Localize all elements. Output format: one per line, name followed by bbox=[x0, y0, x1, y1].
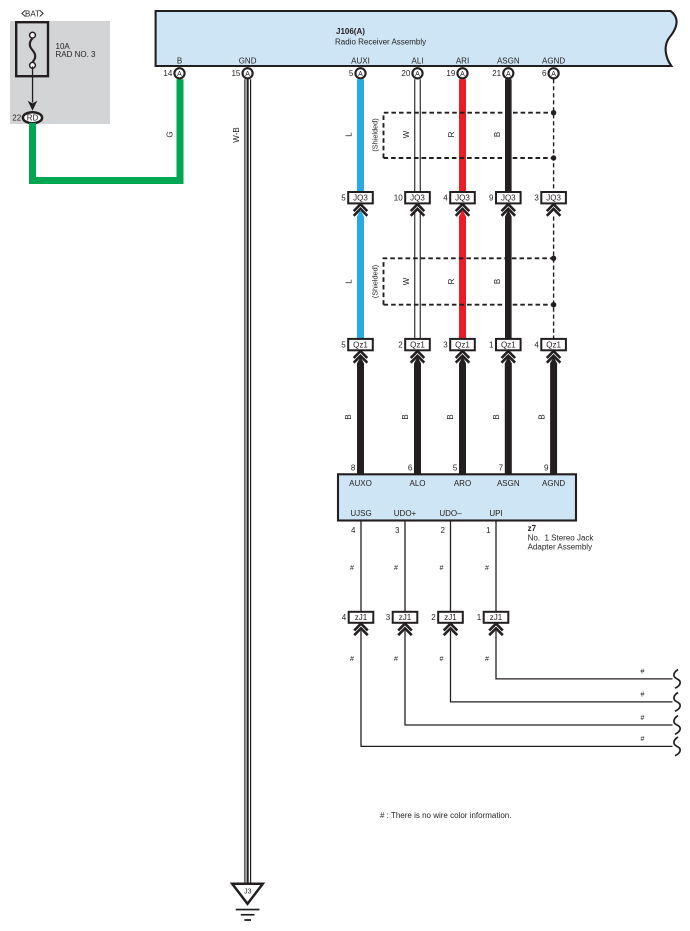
wire from zJ1 pin 4 turning right bbox=[361, 631, 673, 747]
svg-text:ASGN: ASGN bbox=[497, 479, 520, 488]
wire color labels L W R B (upper) bbox=[345, 130, 502, 138]
pin 21 (A) of J106(A), net ASGN bbox=[492, 68, 513, 78]
svg-text:2: 2 bbox=[398, 341, 403, 350]
chevron arrows below Qz1 pin 2 bbox=[411, 351, 425, 363]
svg-text:J3: J3 bbox=[244, 889, 252, 896]
svg-text:AUXO: AUXO bbox=[349, 479, 372, 488]
pin 20 (A) of J106(A), net ALI bbox=[401, 68, 422, 78]
pin 14 (A) of J106(A), net B bbox=[163, 68, 184, 78]
svg-text:#: # bbox=[440, 565, 444, 572]
svg-text:Qz1: Qz1 bbox=[546, 341, 561, 350]
svg-text:R: R bbox=[447, 278, 456, 284]
svg-text:B: B bbox=[492, 414, 501, 419]
chevron arrows below Qz1 pin 5 bbox=[354, 351, 368, 363]
svg-text:#: # bbox=[641, 692, 645, 699]
svg-text:RD: RD bbox=[27, 114, 39, 123]
svg-text:UDO–: UDO– bbox=[439, 509, 462, 518]
svg-text:1: 1 bbox=[489, 341, 494, 350]
svg-text:L: L bbox=[345, 279, 354, 284]
wire color labels L W R B (lower) bbox=[345, 277, 502, 285]
svg-text:JQ3: JQ3 bbox=[353, 194, 368, 203]
connector JQ3 pin 10 bbox=[394, 192, 430, 203]
svg-text:B: B bbox=[446, 414, 455, 419]
wire from fuse to connector 22 bbox=[32, 67, 33, 103]
svg-text:5: 5 bbox=[453, 464, 458, 473]
chevron arrows below zJ1 pin 3 bbox=[398, 624, 412, 636]
svg-text:UJSG: UJSG bbox=[350, 509, 371, 518]
svg-text:Adapter Assembly: Adapter Assembly bbox=[528, 543, 592, 552]
break squiggle at end of run y=725.0 bbox=[674, 716, 680, 735]
svg-text:5: 5 bbox=[349, 69, 354, 78]
svg-text:#: # bbox=[440, 656, 444, 663]
designation z7 No. 1 Stereo Jack Adapter Assembly bbox=[528, 524, 595, 552]
connector zJ1 pin 1 bbox=[477, 612, 509, 623]
chevron arrows below Qz1 pin 3 bbox=[456, 351, 470, 363]
chevron arrows below zJ1 pin 4 bbox=[354, 624, 368, 636]
chevron arrows below zJ1 pin 2 bbox=[444, 624, 458, 636]
connector Qz1 pin 5 bbox=[341, 339, 373, 350]
shielded group 2 dashed outline bbox=[384, 258, 554, 304]
title J106(A) bbox=[335, 27, 426, 46]
wire R (red) middle segment bbox=[459, 210, 466, 339]
svg-text:4: 4 bbox=[443, 194, 448, 203]
svg-text:9: 9 bbox=[489, 194, 494, 203]
svg-text:#: # bbox=[485, 565, 489, 572]
wire B (black) from Qz1 to z7 pin 7 bbox=[505, 357, 512, 476]
arrowhead down bbox=[28, 101, 38, 111]
svg-text:L: L bbox=[345, 132, 354, 137]
svg-text:5: 5 bbox=[341, 341, 346, 350]
svg-text:A: A bbox=[460, 71, 465, 78]
svg-text:15: 15 bbox=[231, 69, 240, 78]
svg-text:14: 14 bbox=[163, 69, 172, 78]
svg-text:4: 4 bbox=[342, 613, 347, 622]
svg-text:UPI: UPI bbox=[489, 509, 502, 518]
svg-text:#: # bbox=[641, 669, 645, 676]
battery label (BAT) bbox=[22, 9, 43, 18]
wire G (green) from connector 22 to pin 14 bbox=[33, 79, 181, 180]
connector Qz1 pin 1 bbox=[489, 339, 521, 350]
svg-text:#: # bbox=[350, 656, 354, 663]
svg-text:zJ1: zJ1 bbox=[444, 613, 457, 622]
svg-text:AGND: AGND bbox=[542, 479, 565, 488]
svg-text:#: # bbox=[641, 715, 645, 722]
wire L (AUXI, light blue) upper segment bbox=[357, 79, 364, 192]
svg-text:B: B bbox=[493, 132, 502, 137]
svg-text:Radio Receiver Assembly: Radio Receiver Assembly bbox=[335, 38, 426, 47]
svg-text:J106(A): J106(A) bbox=[336, 27, 365, 36]
svg-text:Qz1: Qz1 bbox=[455, 341, 470, 350]
svg-text:A: A bbox=[551, 71, 556, 78]
svg-text:6: 6 bbox=[542, 69, 547, 78]
svg-text:#: # bbox=[485, 656, 489, 663]
svg-text:8: 8 bbox=[351, 464, 356, 473]
svg-text:3: 3 bbox=[534, 194, 539, 203]
wire B (black) from Qz1 to z7 pin 8 bbox=[357, 357, 364, 476]
chevron arrows below JQ3 pin 5 bbox=[354, 204, 368, 216]
fuse value label 10A RAD NO. 3 bbox=[56, 42, 97, 59]
svg-text:(Shielded): (Shielded) bbox=[371, 118, 380, 151]
svg-text:B: B bbox=[537, 414, 546, 419]
svg-text:zJ1: zJ1 bbox=[355, 613, 368, 622]
svg-text:A: A bbox=[358, 71, 363, 78]
svg-text:JQ3: JQ3 bbox=[455, 194, 470, 203]
svg-text:21: 21 bbox=[492, 69, 501, 78]
svg-text:RAD NO. 3: RAD NO. 3 bbox=[56, 50, 97, 59]
svg-text:UDO+: UDO+ bbox=[394, 509, 417, 518]
chevron arrows below JQ3 pin 9 bbox=[502, 204, 516, 216]
svg-text:GND: GND bbox=[239, 57, 257, 66]
svg-text:ARI: ARI bbox=[456, 57, 469, 66]
svg-text:B: B bbox=[401, 414, 410, 419]
svg-text:#: # bbox=[350, 565, 354, 572]
connector Qz1 pin 2 bbox=[398, 339, 430, 350]
J106(A) Radio Receiver Assembly box bbox=[156, 11, 677, 66]
fuse 10A RAD NO. 3 bbox=[16, 22, 48, 76]
connector zJ1 pin 2 bbox=[431, 612, 463, 623]
svg-text:ALO: ALO bbox=[409, 479, 425, 488]
connector JQ3 pin 5 bbox=[341, 192, 373, 203]
connector Qz1 pin 3 bbox=[443, 339, 475, 350]
shielded group 1 dashed outline bbox=[384, 113, 554, 158]
svg-text:3: 3 bbox=[443, 341, 448, 350]
wire (no color info) from z7 pin 2 to zJ1 bbox=[450, 521, 451, 612]
junction dot shield1 bottom bbox=[551, 155, 556, 160]
connector 22 RD bbox=[12, 112, 42, 123]
svg-text:3: 3 bbox=[386, 613, 391, 622]
svg-text:B: B bbox=[493, 279, 502, 284]
svg-text:6: 6 bbox=[408, 464, 413, 473]
svg-text:G: G bbox=[165, 131, 174, 137]
break squiggle at end of run y=746.4 bbox=[674, 737, 680, 756]
svg-text:BAT: BAT bbox=[25, 9, 40, 18]
connector JQ3 pin 9 bbox=[489, 192, 521, 203]
junction dot shield2 top bbox=[551, 256, 556, 261]
wire L (light blue) middle segment bbox=[357, 210, 364, 339]
ground symbol J3 bbox=[232, 884, 263, 904]
wire (no color info) from z7 pin 4 to zJ1 bbox=[360, 521, 361, 612]
chevron arrows below zJ1 pin 1 bbox=[489, 624, 503, 636]
svg-text:JQ3: JQ3 bbox=[501, 194, 516, 203]
svg-text:Qz1: Qz1 bbox=[501, 341, 516, 350]
svg-text:W: W bbox=[402, 130, 411, 138]
pin 6 (A) of J106(A), net AGND bbox=[542, 68, 559, 78]
chevron arrows below JQ3 pin 4 bbox=[456, 204, 470, 216]
svg-text:B: B bbox=[177, 57, 182, 66]
svg-text:AGND: AGND bbox=[542, 57, 565, 66]
svg-text:ARO: ARO bbox=[454, 479, 471, 488]
wire W middle segment bbox=[414, 211, 421, 339]
wire W-B (GND) triple line from pin 15 to ground J3 bbox=[244, 79, 251, 883]
connector zJ1 pin 3 bbox=[386, 612, 418, 623]
wire AGND dashed upper segment bbox=[553, 79, 555, 192]
svg-text:z7: z7 bbox=[528, 524, 537, 533]
svg-text:zJ1: zJ1 bbox=[399, 613, 412, 622]
svg-text:10: 10 bbox=[394, 194, 403, 203]
svg-text:1: 1 bbox=[486, 526, 491, 535]
wire B (black) from Qz1 to z7 pin 6 bbox=[414, 357, 421, 476]
junction dot shield2 bottom bbox=[551, 302, 556, 307]
svg-text:A: A bbox=[177, 71, 182, 78]
svg-text:#: # bbox=[394, 656, 398, 663]
connector JQ3 pin 4 bbox=[443, 192, 475, 203]
wire from zJ1 pin 3 turning right bbox=[405, 631, 673, 725]
chevron arrows below Qz1 pin 1 bbox=[502, 351, 516, 363]
wire (no color info) from z7 pin 1 to zJ1 bbox=[495, 521, 496, 612]
z7 No.1 Stereo Jack Adapter Assembly box bbox=[338, 474, 576, 520]
break squiggle at end of run y=678.9 bbox=[674, 670, 680, 689]
wire AGND dashed middle segment bbox=[553, 217, 555, 339]
svg-text:AUXI: AUXI bbox=[351, 57, 370, 66]
pin 5 (A) of J106(A), net AUXI bbox=[349, 68, 366, 78]
svg-text:ALI: ALI bbox=[411, 57, 423, 66]
svg-text:4: 4 bbox=[351, 526, 356, 535]
svg-text:# : There is no wire color inf: # : There is no wire color information. bbox=[380, 811, 511, 820]
break squiggle at end of run y=701.9 bbox=[674, 693, 680, 712]
svg-text:20: 20 bbox=[401, 69, 410, 78]
svg-text:9: 9 bbox=[544, 464, 549, 473]
svg-text:No. 1 Stereo Jack: No. 1 Stereo Jack bbox=[528, 534, 595, 543]
svg-text:W-B: W-B bbox=[232, 127, 241, 142]
connector JQ3 pin 3 bbox=[534, 192, 566, 203]
svg-text:A: A bbox=[506, 71, 511, 78]
svg-text:5: 5 bbox=[341, 194, 346, 203]
svg-text:R: R bbox=[447, 131, 456, 137]
wire from zJ1 pin 2 turning right bbox=[451, 631, 673, 702]
pin 15 (A) of J106(A), net GND bbox=[231, 68, 252, 78]
svg-text:4: 4 bbox=[534, 341, 539, 350]
wire from zJ1 pin 1 turning right bbox=[496, 631, 673, 679]
svg-text:Qz1: Qz1 bbox=[410, 341, 425, 350]
wire B (ASGN, black) upper segment bbox=[505, 79, 512, 192]
chevron arrows below Qz1 pin 4 bbox=[547, 351, 561, 363]
svg-text:3: 3 bbox=[395, 526, 400, 535]
wire W (ALI) upper segment bbox=[414, 79, 421, 192]
svg-text:#: # bbox=[641, 736, 645, 743]
svg-text:JQ3: JQ3 bbox=[546, 194, 561, 203]
svg-text:22: 22 bbox=[12, 114, 21, 123]
svg-text:B: B bbox=[344, 414, 353, 419]
wire B (black) from Qz1 to z7 pin 9 bbox=[550, 357, 557, 476]
svg-text:ASGN: ASGN bbox=[497, 57, 520, 66]
svg-text:7: 7 bbox=[499, 464, 504, 473]
svg-text:2: 2 bbox=[441, 526, 446, 535]
ground bars bbox=[236, 909, 260, 921]
svg-text:19: 19 bbox=[446, 69, 455, 78]
svg-text:JQ3: JQ3 bbox=[410, 194, 425, 203]
svg-text:zJ1: zJ1 bbox=[490, 613, 503, 622]
fuse block (gray junction block) bbox=[10, 21, 110, 124]
wire B (black) middle segment bbox=[505, 210, 512, 339]
svg-text:A: A bbox=[415, 71, 420, 78]
svg-text:#: # bbox=[394, 565, 398, 572]
svg-text:(Shielded): (Shielded) bbox=[371, 265, 380, 298]
chevron arrows below JQ3 pin 10 bbox=[411, 204, 425, 216]
chevron arrows below JQ3 pin 3 bbox=[547, 204, 561, 216]
svg-text:2: 2 bbox=[431, 613, 436, 622]
svg-text:1: 1 bbox=[477, 613, 482, 622]
svg-text:Qz1: Qz1 bbox=[353, 341, 368, 350]
connector Qz1 pin 4 bbox=[534, 339, 566, 350]
svg-text:W: W bbox=[402, 277, 411, 285]
wire B (black) from Qz1 to z7 pin 5 bbox=[459, 357, 466, 476]
wire (no color info) from z7 pin 3 to zJ1 bbox=[404, 521, 405, 612]
pin 19 (A) of J106(A), net ARI bbox=[446, 68, 467, 78]
wire R (ARI, red) upper segment bbox=[459, 79, 466, 192]
junction dot shield1 top bbox=[551, 110, 556, 115]
svg-text:A: A bbox=[245, 71, 250, 78]
connector zJ1 pin 4 bbox=[342, 612, 374, 623]
